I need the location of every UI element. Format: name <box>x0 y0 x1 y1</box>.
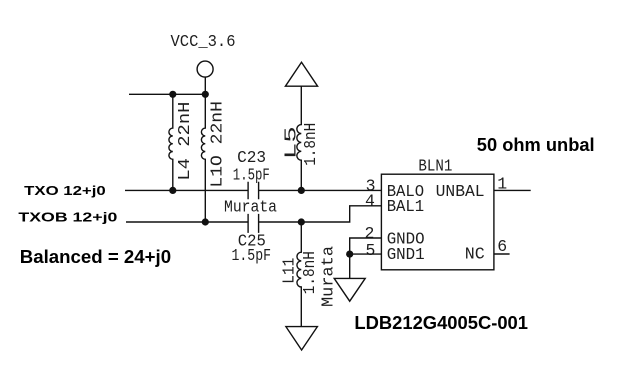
wire top bus bar <box>129 93 205 95</box>
inductor L10 <box>201 94 205 222</box>
junction at L10 top <box>202 91 209 98</box>
svg-text:L1O 22nH: L1O 22nH <box>207 101 226 188</box>
svg-text:5: 5 <box>366 241 376 260</box>
junction L5 / TXO <box>298 187 305 194</box>
wire TXO left segment <box>125 189 248 191</box>
svg-text:Murata: Murata <box>318 246 337 307</box>
svg-text:LDB212G4005C-001: LDB212G4005C-001 <box>354 313 528 333</box>
capacitor C23 <box>248 182 259 200</box>
balun BLN1 box <box>381 174 494 270</box>
svg-text:1.5pF: 1.5pF <box>233 165 270 184</box>
svg-text:1.8nH: 1.8nH <box>300 251 319 294</box>
ground at pin 5 <box>334 278 365 301</box>
power symbol VCC_3.6 circle <box>197 61 213 77</box>
junction L4 / TXO <box>169 187 176 194</box>
wire TXOB right segment with jog up to pin 4 <box>259 206 382 222</box>
port triangle above L5 <box>285 62 317 86</box>
svg-text:TXOB 12+j0: TXOB 12+j0 <box>18 210 117 225</box>
svg-text:C23: C23 <box>237 148 266 167</box>
svg-text:GND1: GND1 <box>387 245 425 264</box>
wire pin 2 <box>350 238 382 254</box>
inductor L4 <box>169 94 173 190</box>
svg-text:Balanced = 24+j0: Balanced = 24+j0 <box>20 247 171 267</box>
junction L10 / TXOB <box>202 218 209 225</box>
svg-text:L5: L5 <box>282 126 301 159</box>
svg-text:1.8nH: 1.8nH <box>301 123 320 166</box>
svg-text:VCC_3.6: VCC_3.6 <box>171 32 236 51</box>
wire pin 1 stub <box>494 189 531 191</box>
svg-text:50 ohm unbal: 50 ohm unbal <box>477 135 595 155</box>
wire pin 5 <box>350 253 382 255</box>
svg-text:1.5pF: 1.5pF <box>232 246 272 265</box>
wire TXOB left segment <box>126 221 248 223</box>
svg-text:UNBAL: UNBAL <box>436 182 485 201</box>
wire ground stem <box>349 254 351 278</box>
svg-text:L4 22nH: L4 22nH <box>175 102 194 181</box>
wire TXO right segment to pin 3 <box>259 189 382 191</box>
junction at L4 top <box>169 91 176 98</box>
inductor L5 <box>297 86 301 190</box>
wire pin 6 stub <box>494 253 510 255</box>
wire VCC stem <box>204 77 206 94</box>
svg-text:L11: L11 <box>280 258 299 284</box>
svg-text:BLN1: BLN1 <box>418 157 452 176</box>
svg-text:Murata: Murata <box>224 197 277 216</box>
svg-text:4: 4 <box>365 192 375 211</box>
capacitor C25 <box>248 214 259 233</box>
junction L11 / TXOB <box>298 218 305 225</box>
svg-text:NC: NC <box>465 244 485 263</box>
inductor L11 <box>297 222 301 327</box>
svg-text:BAL1: BAL1 <box>387 197 425 216</box>
junction pin5 / ground <box>346 251 353 258</box>
ground under L11 <box>286 327 318 350</box>
svg-text:TXO 12+j0: TXO 12+j0 <box>24 183 106 198</box>
